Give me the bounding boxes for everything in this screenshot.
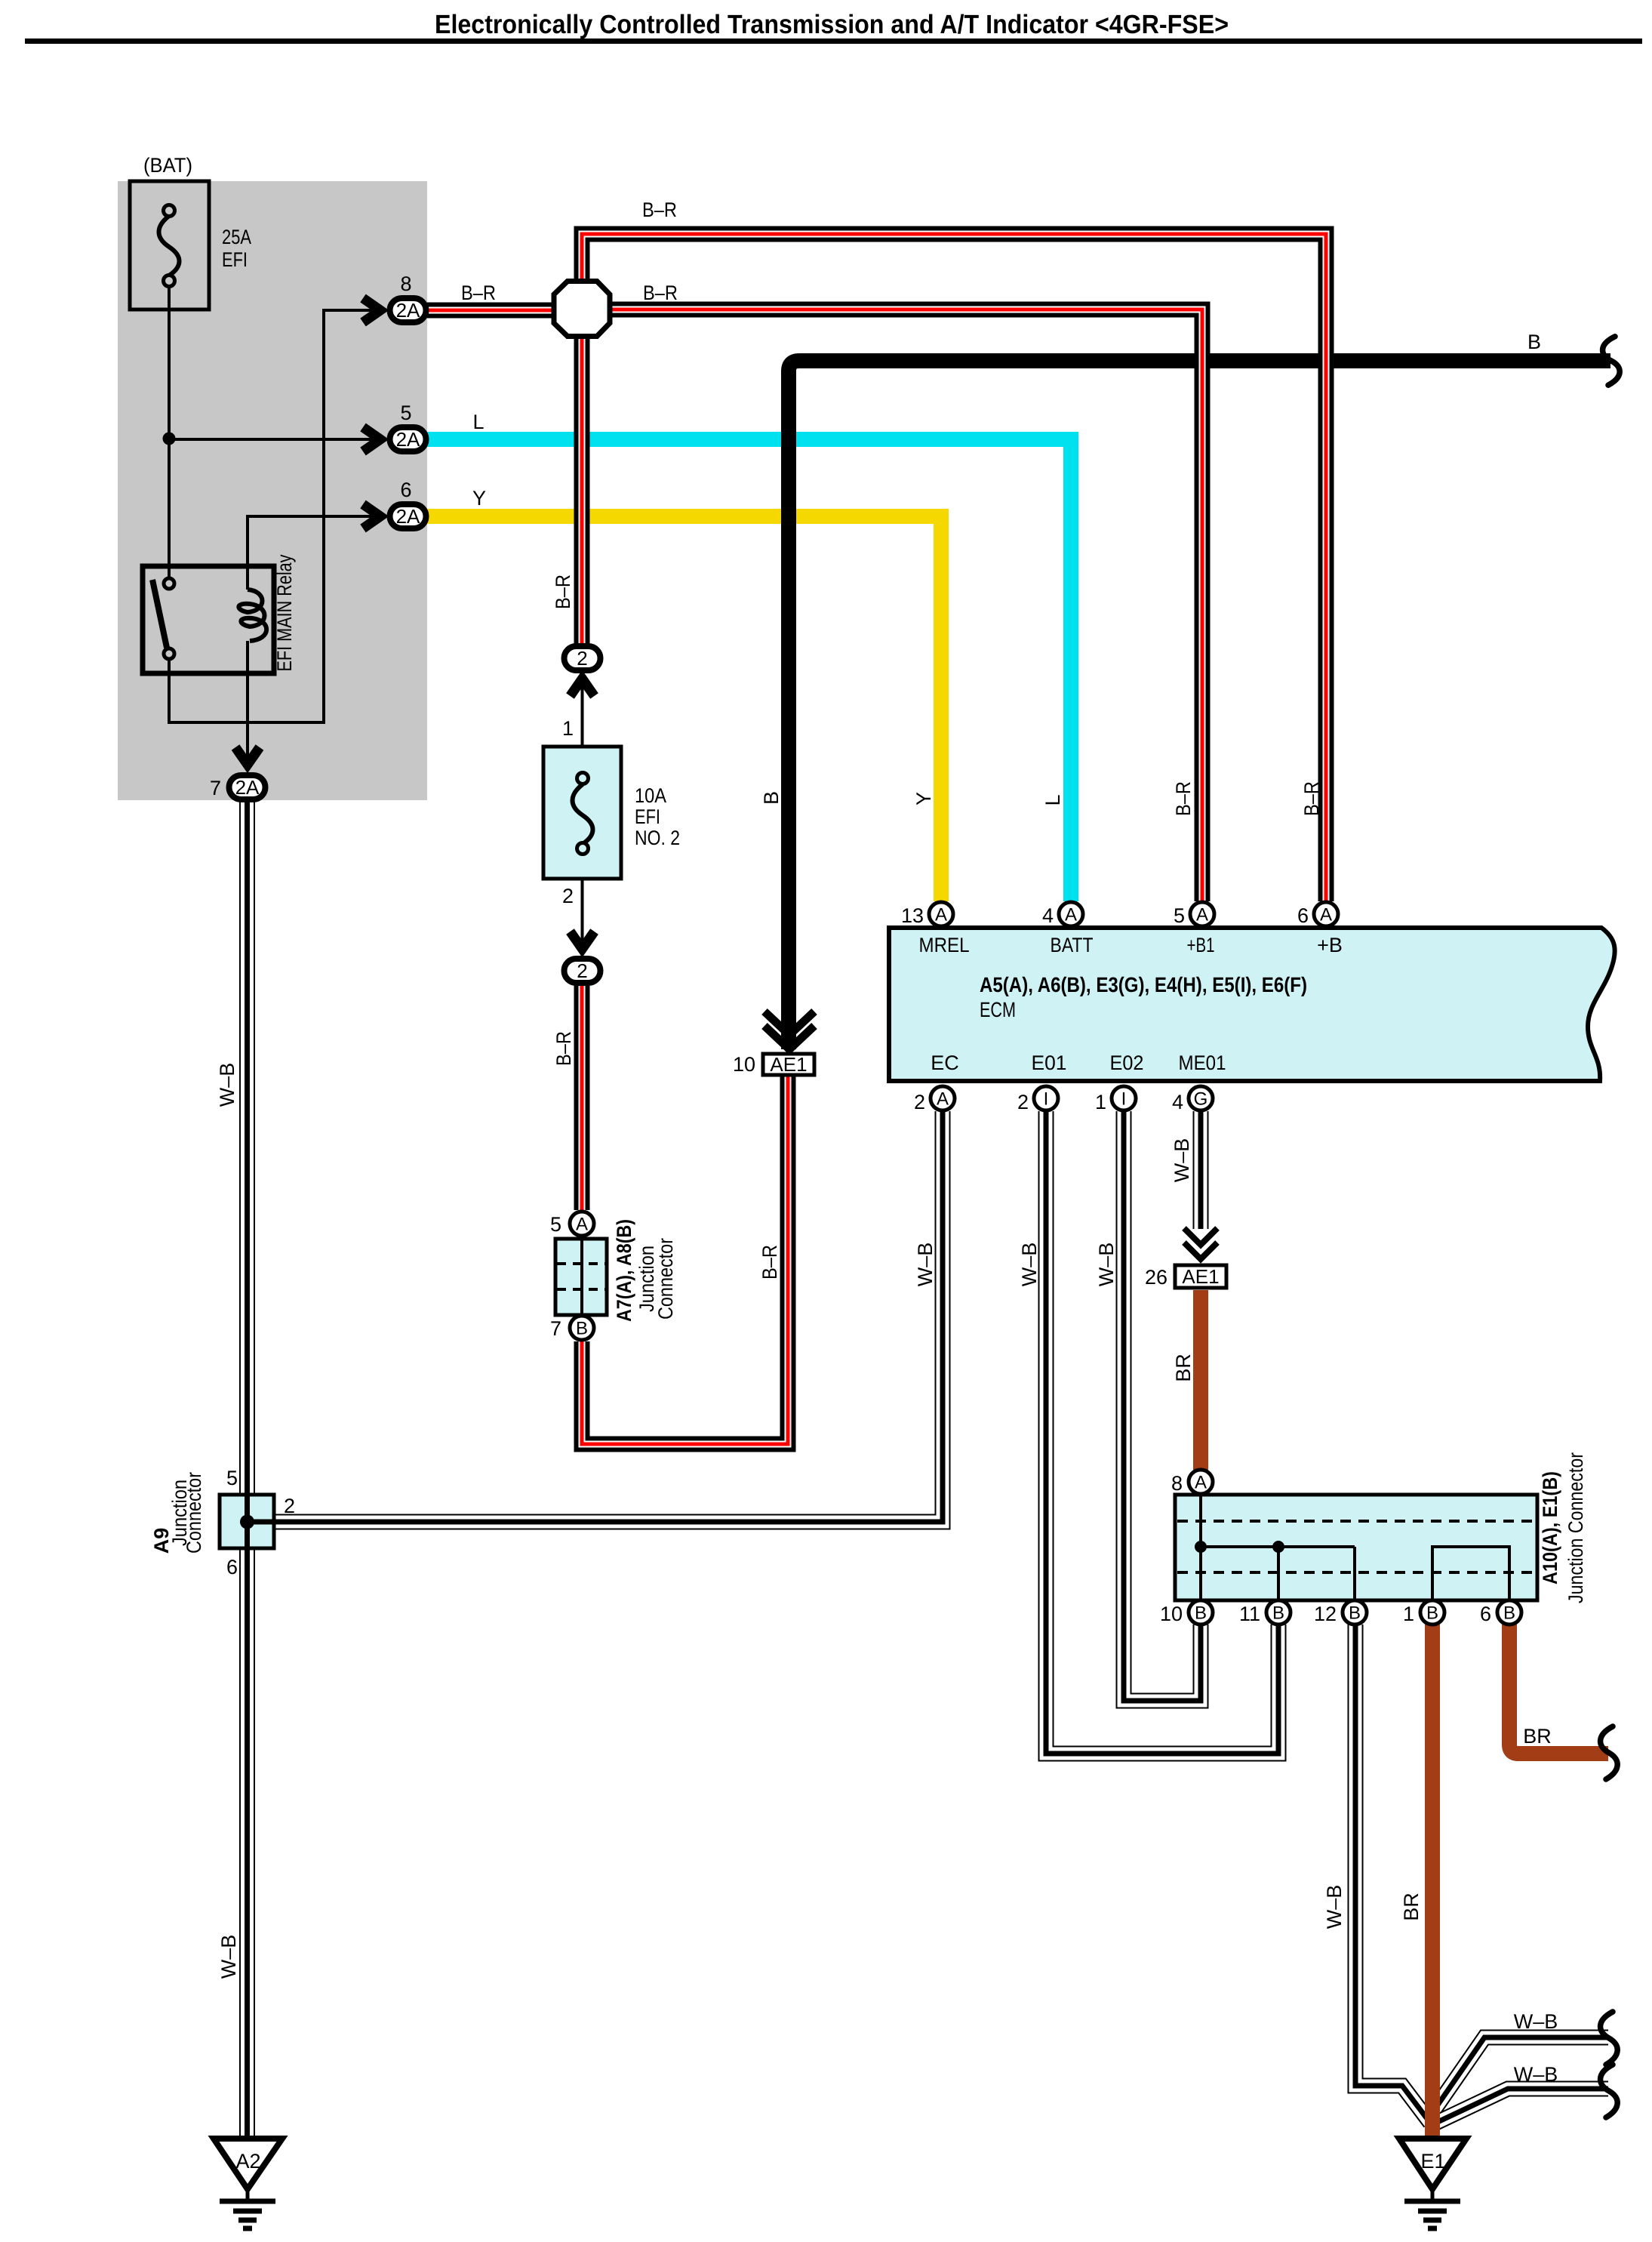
relay coil [238,590,266,641]
A9 junction dot [240,1515,254,1529]
title underline [25,38,1642,44]
junction connector A7 A8 pin A [570,1212,594,1236]
svg-text:B: B [1426,1603,1438,1624]
connector AE1 pin26 box [1175,1265,1226,1288]
svg-text:ECM: ECM [980,998,1016,1021]
svg-text:B: B [1527,331,1541,353]
svg-text:(BAT): (BAT) [143,154,192,177]
svg-text:W–B: W–B [914,1243,937,1287]
svg-text:2: 2 [577,959,587,982]
svg-text:A: A [1320,905,1332,925]
svg-text:A2: A2 [235,2150,260,2173]
junction connector A7 A8 box [555,1239,607,1315]
svg-text:BR: BR [1172,1354,1195,1382]
wire W-B A10 pin12 to ground E1 [1355,1625,1430,2123]
junction dot battery feed [163,433,176,445]
ECM box [889,928,1615,1081]
fuse 25A EFI element [159,205,180,287]
arrow into pin7 2A [235,747,260,765]
wire B-R octagon bottom to connector 2 [574,336,590,644]
svg-text:5: 5 [400,402,411,424]
svg-text:Junction Connector: Junction Connector [1564,1452,1587,1603]
junction connector A9 box [220,1495,274,1548]
svg-text:A7(A), A8(B): A7(A), A8(B) [613,1219,635,1322]
svg-text:B: B [576,1319,588,1339]
svg-text:7: 7 [550,1317,561,1340]
svg-text:L: L [1041,794,1064,805]
wire relay coil to pin7 2A [246,641,249,766]
wire BR A10 pin6 to right break [1509,1625,1608,1754]
svg-text:1: 1 [562,717,574,740]
svg-text:A5(A), A6(B), E3(G), E4(H), E5: A5(A), A6(B), E3(G), E4(H), E5(I), E6(F) [980,973,1307,996]
svg-text:W–B: W–B [1095,1243,1118,1287]
wire B-R octagon to ECM +B1 [609,310,1202,901]
wire B (black) AE1-10 up and right to break [789,361,1610,1049]
ECM pin 5 +B1 [1190,902,1214,926]
svg-text:8: 8 [1171,1472,1183,1495]
svg-text:4: 4 [1042,904,1054,927]
svg-text:7: 7 [210,777,221,799]
svg-text:B–R: B–R [758,1245,781,1280]
relay EFI MAIN box [143,566,274,673]
svg-text:NO. 2: NO. 2 [635,827,680,849]
svg-text:I: I [1121,1089,1127,1110]
wire junction dot to pin5 2A [169,438,382,441]
junction connector A10 E1 pin10 [1189,1600,1213,1625]
connector AE1 pin10 box [763,1053,814,1076]
ECM pin 2 E01 [1034,1086,1058,1110]
wire W-B ECM ME01 to AE1-26 [1193,1111,1209,1229]
svg-text:+B: +B [1317,934,1343,956]
svg-text:B–R: B–R [1300,781,1323,816]
svg-text:2A: 2A [396,505,420,528]
A9 internal wire [248,1495,275,1548]
wire W-B ECM E01 to A10 pin11 [1046,1111,1278,1754]
svg-text:MREL: MREL [919,934,970,956]
svg-text:Electronically Controlled Tran: Electronically Controlled Transmission a… [435,10,1229,39]
wire B-R octagon top to ECM +B [582,234,1326,901]
svg-text:A: A [1196,905,1208,925]
svg-text:A: A [576,1215,588,1235]
svg-text:B: B [1349,1603,1361,1624]
wire B-R junction connector A8 to AE1-10 [582,1074,788,1444]
svg-text:B–R: B–R [1172,781,1195,816]
ECM pin 1 E02 [1112,1086,1136,1110]
svg-text:W–B: W–B [1514,2010,1558,2033]
double arrow into AE1-26 [1184,1228,1217,1259]
fuse 10A EFI NO.2 box [543,747,621,879]
connector 2 upper [565,646,601,670]
junction connector A7 A8 pin B [570,1316,594,1340]
svg-text:L: L [472,411,484,433]
svg-text:+B1: +B1 [1187,934,1215,956]
wire W-B right break lower to ground E1 [1436,2089,1608,2123]
ECM pin 13 MREL [929,902,953,926]
svg-text:BATT: BATT [1051,934,1094,956]
svg-text:2: 2 [284,1495,295,1517]
svg-text:W–B: W–B [1018,1243,1041,1287]
svg-text:2: 2 [914,1091,925,1113]
connector 2A pin8 [390,298,426,322]
relay switch contacts [152,578,174,659]
svg-text:26: 26 [1145,1266,1167,1289]
arrow into pin6 2A [363,504,380,528]
svg-text:5: 5 [550,1213,561,1236]
svg-text:2: 2 [1017,1091,1029,1113]
svg-text:B–R: B–R [461,282,496,304]
svg-text:6: 6 [400,479,411,501]
svg-text:G: G [1194,1089,1208,1110]
svg-text:10: 10 [1160,1603,1183,1625]
svg-text:10A: 10A [635,784,666,807]
svg-text:12: 12 [1314,1603,1337,1625]
ECM pin 4 ME01 [1189,1086,1213,1110]
arrow into pin5 2A [363,427,380,451]
svg-text:A: A [937,1089,949,1110]
connector 2A pin7 [229,775,266,799]
svg-text:2A: 2A [235,776,260,799]
connector 2A pin6 [390,504,426,528]
svg-text:B: B [1503,1603,1515,1624]
svg-text:Y: Y [472,487,486,510]
svg-text:Connector: Connector [183,1472,205,1554]
svg-text:25A: 25A [222,226,251,248]
junction connector A10 E1 pin11 [1266,1600,1291,1625]
svg-text:E01: E01 [1032,1052,1067,1074]
break symbol W-B upper [1601,2012,1618,2065]
svg-text:B–R: B–R [552,1031,575,1066]
wire fuse EFI NO.2 pin2 to connector 2 [581,879,584,950]
break symbol B wire [1603,337,1620,385]
svg-text:B–R: B–R [552,574,574,609]
svg-text:5: 5 [226,1467,238,1489]
svg-text:B–R: B–R [643,282,678,304]
svg-text:11: 11 [1239,1603,1260,1625]
svg-text:10: 10 [733,1053,755,1076]
fuse 10A EFI NO.2 element [573,773,593,855]
svg-text:W–B: W–B [1171,1138,1193,1183]
svg-text:B: B [1272,1603,1284,1624]
ECM pin 2 EC [931,1086,955,1110]
arrow down into connector 2 lower [571,932,595,949]
wire B-R connector 2 to junction connector A7 A8 [574,985,590,1210]
junction connector A10 E1 pin8 [1189,1470,1213,1494]
A10 junction dot 1 [1195,1541,1207,1553]
svg-text:Connector: Connector [654,1238,677,1320]
junction connector A10 E1 box [1175,1495,1537,1600]
svg-text:E02: E02 [1110,1052,1144,1074]
wire B-R pin8 2A to octagon junction [427,303,555,319]
svg-text:B: B [760,791,783,805]
ECM pin 4 BATT [1059,902,1083,926]
svg-text:2A: 2A [396,299,420,322]
svg-text:1: 1 [1403,1603,1414,1625]
svg-text:I: I [1044,1089,1049,1110]
svg-text:EC: EC [931,1052,959,1074]
wire W-B pin7 2A to ground A2 [239,802,255,2139]
wire L (cyan) pin5 2A to ECM BATT [427,439,1071,901]
svg-text:AE1: AE1 [1182,1265,1219,1288]
octagon splice node [554,282,610,337]
svg-text:6: 6 [226,1556,238,1578]
svg-text:W–B: W–B [1323,1885,1346,1929]
svg-text:1: 1 [1095,1091,1106,1113]
svg-text:EFI MAIN Relay: EFI MAIN Relay [273,554,296,671]
svg-text:2A: 2A [396,428,420,451]
junction connector A10 E1 pin6 [1497,1600,1521,1625]
connector 2A pin5 [390,427,426,451]
svg-text:AE1: AE1 [770,1053,807,1076]
svg-text:BR: BR [1523,1725,1552,1748]
wire Y (yellow) pin6 2A to ECM MREL [427,516,941,901]
svg-text:E1: E1 [1420,2150,1445,2173]
svg-text:Y: Y [912,792,935,805]
wire W-B ECM EC to junction connector A9 [249,1111,943,1522]
gray background panel [118,181,427,800]
svg-text:B–R: B–R [642,199,677,221]
wire W-B ECM E02 to A10 pin10 [1124,1111,1201,1701]
svg-text:6: 6 [1297,904,1309,927]
svg-text:4: 4 [1172,1091,1183,1113]
connector 2 lower [565,959,601,983]
wire relay coil to pin6 2A [248,516,382,590]
svg-text:A: A [1195,1473,1207,1493]
wire connector 2 to fuse EFI NO.2 pin1 [581,677,584,747]
wire fuse 25A to junction dot to relay contact [168,286,171,578]
svg-text:ME01: ME01 [1179,1052,1226,1074]
A10 junction dot 2 [1272,1541,1284,1553]
svg-text:EFI: EFI [635,805,660,828]
ground E1 [1399,2139,1466,2228]
arrow up into connector 2 [571,679,595,696]
wire W-B right break upper to ground E1 [1432,2037,1608,2114]
wire BR AE1-26 to A10 pin8 [1193,1290,1208,1470]
svg-text:W–B: W–B [216,1063,238,1107]
svg-text:A10(A), E1(B): A10(A), E1(B) [1539,1471,1561,1584]
wire relay switch to pin8 2A [169,310,382,722]
ECM pin 6 +B [1314,902,1338,926]
arrow into pin8 2A [363,298,380,322]
svg-text:A: A [1065,905,1077,925]
break symbol W-B lower [1601,2065,1618,2117]
svg-text:6: 6 [1480,1603,1491,1625]
double arrow into AE1-10 [764,1012,814,1049]
svg-text:EFI: EFI [222,248,248,271]
junction connector A10 E1 pin1 [1420,1600,1444,1625]
break symbol BR wire [1601,1726,1618,1779]
svg-text:BR: BR [1400,1892,1423,1921]
junction connector A10 E1 pin12 [1343,1600,1367,1625]
fuse 25A EFI box [130,181,209,310]
svg-text:8: 8 [400,273,411,295]
svg-text:5: 5 [1174,904,1185,927]
ground A2 [214,2139,282,2228]
svg-text:W–B: W–B [217,1935,240,1979]
svg-text:W–B: W–B [1514,2063,1558,2086]
svg-text:13: 13 [901,904,924,927]
wire BR A10 pin1 to ground E1 [1425,1625,1440,2139]
svg-text:A: A [935,905,947,925]
svg-text:2: 2 [562,885,574,907]
svg-text:2: 2 [577,647,587,670]
svg-text:B: B [1195,1603,1207,1624]
